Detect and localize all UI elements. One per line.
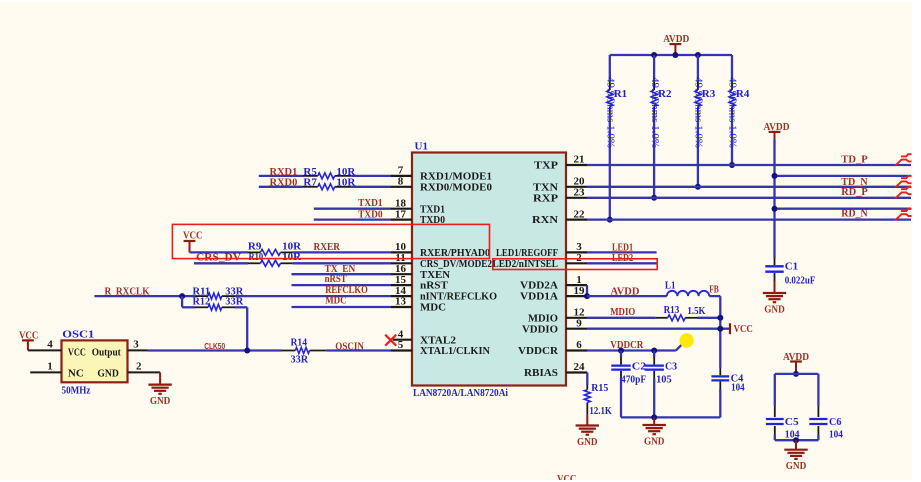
svg-text:nRST: nRST: [325, 273, 348, 285]
junction TD_N tap: [772, 173, 778, 179]
svg-text:CLK50: CLK50: [204, 342, 225, 351]
resistor R11 33R: [193, 286, 245, 300]
U1 pin 21 TXP: [534, 154, 587, 172]
U1 pin 13 MDC: [391, 296, 446, 314]
svg-text:23: 23: [574, 187, 586, 199]
ground (C1): [763, 281, 786, 315]
power VCC (RXER pull): [183, 229, 203, 252]
svg-text:MDIO: MDIO: [610, 306, 635, 318]
wire TXD0 row: [314, 218, 391, 220]
wire RBIAS down: [586, 373, 588, 386]
junction R1 bottom: [607, 217, 613, 223]
U1 pin 9 VDDIO: [522, 317, 587, 335]
OSC1 pin 1: [30, 361, 61, 373]
U1 pin 2 LED2/nINTSEL: [493, 252, 588, 270]
resistor R10 10R: [248, 251, 302, 266]
net label AVDD: [611, 285, 640, 297]
wire VDDCR row: [587, 349, 676, 351]
U1 pin 1 VDD2A: [520, 274, 587, 292]
svg-text:1: 1: [47, 361, 53, 373]
U1 pin 7 RXD1/MODE1: [391, 165, 492, 183]
wire MDC row: [292, 306, 392, 308]
OSC1 pin 4: [28, 339, 62, 351]
U1 pin 4 XTAL2: [393, 328, 457, 346]
power AVDD (C5 C6): [783, 351, 809, 374]
svg-text:R13: R13: [664, 304, 680, 316]
resistor R14 33R: [282, 337, 327, 366]
wire decoupling bottom: [621, 416, 720, 418]
svg-text:FB: FB: [709, 283, 719, 295]
svg-text:2: 2: [136, 361, 142, 373]
wire nRST row: [292, 284, 392, 286]
resistor R3 49.9Ohms 1.0%: [693, 77, 716, 148]
net label VDDCR: [610, 339, 644, 351]
svg-text:C2: C2: [632, 361, 647, 373]
net label FB: [709, 283, 719, 295]
svg-text:LAN8720A/LAN8720Ai: LAN8720A/LAN8720Ai: [413, 387, 508, 399]
wire R_RXCLK / REFCLKO row: [94, 295, 391, 297]
wire RXN line: [587, 218, 911, 220]
power VCC (OSC1): [19, 329, 39, 350]
net label OSCIN: [335, 340, 364, 352]
svg-text:U1: U1: [415, 141, 428, 153]
svg-text:5: 5: [398, 339, 404, 351]
svg-text:TXP: TXP: [534, 160, 558, 172]
svg-text:MDC: MDC: [420, 302, 446, 314]
ground (C5 C6): [784, 440, 807, 472]
power VCC (VDDIO): [730, 323, 753, 335]
svg-text:VDD1A: VDD1A: [520, 291, 558, 303]
junction R2 bottom: [651, 195, 657, 201]
resistor R7 10R: [303, 177, 357, 190]
resistor R2 49.9Ohms 1.0%: [649, 77, 672, 148]
ground (C2 C3 C4): [643, 417, 666, 447]
svg-text:CRS_DV: CRS_DV: [196, 251, 241, 263]
svg-text:GND: GND: [97, 367, 119, 379]
off-sheet connector RD_N: [895, 209, 911, 220]
U1 pin 15 nRST: [391, 274, 449, 292]
wire VDD2A to VDD1A tie: [586, 285, 588, 296]
svg-text:GND: GND: [786, 460, 807, 472]
U1 pin 12 MDIO: [528, 307, 587, 325]
wire AVDD vertical to C1: [773, 140, 775, 258]
off-sheet connector TD_P: [895, 154, 911, 165]
svg-text:RXD0/MODE0: RXD0/MODE0: [420, 181, 492, 193]
junction VDD1A: [584, 293, 590, 299]
net label R_RXCLK: [105, 286, 150, 298]
capacitor C2 470pF: [611, 351, 646, 418]
svg-text:R15: R15: [591, 382, 608, 394]
wire RXD1 row: [259, 175, 391, 177]
annotation rectangle 1: [172, 224, 489, 258]
wire TXD1 row: [314, 208, 391, 210]
net label TXD1: [358, 197, 382, 209]
svg-text:1.5K: 1.5K: [687, 305, 705, 317]
net label LED1: [612, 241, 633, 253]
capacitor C5 104: [766, 406, 800, 440]
U1 pin 20 TXN: [533, 176, 587, 194]
svg-text:33R: 33R: [225, 296, 244, 308]
wire R12 branch: [182, 296, 247, 350]
svg-text:TXD0: TXD0: [358, 208, 383, 220]
svg-text:49.9Ohms 1.0%: 49.9Ohms 1.0%: [693, 77, 705, 148]
svg-text:RXN: RXN: [532, 214, 558, 226]
svg-text:GND: GND: [764, 303, 785, 315]
svg-text:105: 105: [656, 373, 672, 385]
svg-text:50MHz: 50MHz: [62, 385, 91, 397]
svg-text:R12: R12: [193, 296, 211, 308]
svg-text:12.1K: 12.1K: [589, 405, 612, 417]
capacitor C3 105: [645, 351, 678, 418]
wire CRS_DV row: [194, 262, 391, 264]
svg-text:R_RXCLK: R_RXCLK: [105, 286, 150, 298]
highlight dot (yellow): [679, 333, 693, 347]
wire C5/C6 loop: [775, 374, 819, 440]
svg-text:21: 21: [574, 154, 585, 166]
resistor R5 10R: [303, 166, 357, 179]
svg-text:49.9Ohms 1.0%: 49.9Ohms 1.0%: [649, 77, 661, 148]
svg-text:LED2/nINTSEL: LED2/nINTSEL: [493, 258, 559, 270]
svg-text:104: 104: [829, 428, 843, 440]
svg-text:RD_N: RD_N: [841, 208, 867, 220]
off-sheet connector TD_N: [895, 176, 911, 187]
svg-text:VCC: VCC: [68, 347, 86, 359]
net label TD_N: [841, 176, 867, 188]
junction AVDD stub: [672, 52, 678, 58]
junction GND tap: [651, 414, 657, 420]
inductor L1 FB: [665, 280, 709, 297]
svg-text:3: 3: [133, 339, 139, 351]
wire LED1 row: [587, 251, 657, 253]
wire TXP/TD_P line: [587, 164, 911, 166]
svg-text:C5: C5: [785, 416, 799, 428]
junction C2 top: [618, 348, 624, 354]
U1 pin 11 CRS_DV/MODE2: [391, 252, 492, 270]
svg-text:TD_P: TD_P: [841, 154, 868, 166]
wire RXP line: [587, 197, 911, 199]
svg-text:MDC: MDC: [325, 295, 346, 307]
junction R3 top: [695, 52, 701, 58]
wire RXD0 row: [259, 186, 391, 188]
svg-text:AVDD: AVDD: [764, 121, 790, 133]
svg-text:10R: 10R: [282, 251, 302, 263]
svg-text:C3: C3: [665, 361, 678, 373]
wire R4 vertical: [731, 55, 733, 165]
junction MDIO/rail: [717, 315, 723, 321]
U1 pin 3 LED1/REGOFF: [496, 241, 587, 259]
net label TXD0: [358, 208, 383, 220]
capacitor C6 104: [809, 406, 843, 440]
net label TD_P: [841, 154, 868, 166]
svg-text:VDDIO: VDDIO: [522, 323, 558, 335]
svg-text:49.9Ohms 1.0%: 49.9Ohms 1.0%: [605, 77, 617, 148]
U1 pin 16 TXEN: [391, 263, 450, 281]
net label LED2: [612, 252, 634, 264]
resistor R1 49.9Ohms 1.0%: [605, 77, 628, 148]
wire AVDD row to L1: [587, 295, 667, 297]
svg-text:33R: 33R: [291, 354, 310, 366]
U1 pin 22 RXN: [532, 208, 587, 226]
svg-text:C6: C6: [829, 416, 842, 428]
svg-text:0.022uF: 0.022uF: [785, 274, 816, 286]
U1 pin 6 VDDCR: [518, 339, 587, 357]
svg-text:17: 17: [395, 208, 407, 220]
net label TX_EN: [325, 263, 356, 275]
resistor R15 12.1K: [584, 382, 612, 417]
svg-text:470pF: 470pF: [621, 373, 646, 385]
svg-text:GND: GND: [644, 435, 665, 447]
svg-text:VDDCR: VDDCR: [518, 345, 559, 357]
wire RD_N upper line: [775, 208, 912, 210]
wire TXN line: [587, 186, 911, 188]
op-amp U1 body (LAN8720A PHY): [412, 141, 566, 399]
wire VDDCR stub diagonal: [676, 341, 685, 350]
wire CLK50 row: [148, 349, 392, 351]
svg-text:6: 6: [576, 339, 582, 351]
svg-text:8: 8: [398, 176, 404, 188]
U1 pin 23 RXP: [533, 187, 587, 205]
wire R2 vertical: [653, 55, 655, 198]
svg-text:L1: L1: [665, 280, 676, 292]
svg-text:R7: R7: [303, 177, 317, 189]
svg-text:GND: GND: [150, 395, 171, 407]
power AVDD (C1 filter): [764, 121, 790, 140]
svg-text:RD_P: RD_P: [841, 186, 868, 198]
svg-text:AVDD: AVDD: [663, 33, 689, 45]
junction CLK50/R12: [244, 348, 250, 354]
svg-text:VCC: VCC: [734, 323, 753, 335]
svg-text:Output: Output: [92, 347, 121, 359]
net label CRS_DV: [196, 251, 241, 263]
wire AVDD bus top: [610, 54, 732, 56]
power AVDD (resistor bank): [663, 33, 689, 55]
U1 pin 10 RXER/PHYAD0: [391, 241, 490, 259]
svg-text:OSCIN: OSCIN: [335, 340, 364, 352]
svg-text:19: 19: [574, 285, 586, 297]
net label VCC (bottom): [557, 473, 576, 482]
ground (R15): [576, 414, 599, 448]
junction R_RXCLK split: [179, 293, 185, 299]
resistor R9 10R: [248, 241, 302, 256]
no-connect X on pin 4: [385, 335, 396, 346]
OSC1 pin 3: [128, 339, 148, 351]
svg-text:R10: R10: [249, 251, 264, 263]
svg-text:104: 104: [731, 381, 745, 393]
svg-text:R14: R14: [291, 337, 308, 349]
net label RXD1: [270, 166, 298, 178]
svg-text:VCC: VCC: [183, 229, 203, 241]
resistor R12 33R: [193, 296, 245, 311]
capacitor C1 0.022uF: [765, 258, 815, 286]
svg-text:AVDD: AVDD: [783, 351, 809, 363]
wire LED2 row: [587, 262, 657, 264]
wire MDIO row: [587, 317, 720, 319]
svg-text:TXD1: TXD1: [358, 197, 382, 209]
svg-text:RXER: RXER: [314, 241, 341, 253]
net label nRST: [325, 273, 348, 285]
U1 pin 17 TXD0: [391, 208, 445, 226]
svg-text:10R: 10R: [336, 177, 356, 189]
net label MDIO: [610, 306, 635, 318]
resistor R4 49.9Ohms 1.0%: [727, 77, 750, 148]
ground (OSC1 pin2): [148, 372, 171, 407]
net label CLK50: [204, 342, 225, 351]
wire RXER row: [190, 251, 392, 253]
U1 pin 14 nINT/REFCLKO: [391, 285, 497, 303]
svg-text:RXD0: RXD0: [270, 177, 298, 189]
junction R2 top: [651, 52, 657, 58]
svg-text:13: 13: [395, 296, 407, 308]
wire L1 to VCC rail corner: [709, 296, 720, 368]
svg-text:XTAL1/CLKIN: XTAL1/CLKIN: [420, 345, 490, 357]
annotation rectangle 2: [493, 259, 657, 270]
U1 pin 19 VDD1A: [520, 285, 587, 303]
svg-text:22: 22: [574, 208, 586, 220]
wire R3 vertical: [697, 55, 699, 187]
oscillator OSC1 body: [62, 329, 128, 397]
junction R4 bottom: [729, 162, 735, 168]
svg-text:49.9Ohms 1.0%: 49.9Ohms 1.0%: [727, 77, 739, 148]
svg-text:AVDD: AVDD: [611, 285, 640, 297]
wire R1 vertical: [609, 55, 611, 220]
U1 pin 18 TXD1: [391, 197, 445, 215]
svg-text:VCC: VCC: [19, 329, 39, 341]
wire TX_EN row: [292, 273, 392, 275]
U1 pin 8 RXD0/MODE0: [391, 176, 492, 194]
net label REFCLKO: [325, 284, 368, 296]
svg-text:9: 9: [576, 317, 582, 329]
svg-text:OSC1: OSC1: [62, 329, 94, 341]
off-sheet connector RD_P: [895, 187, 911, 198]
junction RD_N tap: [772, 206, 778, 212]
svg-text:C1: C1: [785, 261, 798, 273]
U1 pin 24 RBIAS: [524, 361, 587, 379]
net label RD_P: [841, 186, 868, 198]
svg-text:4: 4: [47, 339, 53, 351]
net label RXER: [314, 241, 341, 253]
junction R3 bottom: [695, 184, 701, 190]
resistor R13 1.5K: [655, 304, 705, 321]
wire TD_N upper line: [775, 175, 912, 177]
net label RD_N: [841, 208, 867, 220]
U1 pin 5 XTAL1/CLKIN: [391, 339, 490, 357]
junction AVDD C5C6 top: [793, 371, 799, 377]
svg-text:RXP: RXP: [533, 192, 558, 204]
net label MDC: [325, 295, 346, 307]
net label RXD0: [270, 177, 298, 189]
svg-text:RBIAS: RBIAS: [524, 367, 558, 379]
svg-text:GND: GND: [577, 436, 598, 448]
junction C3 top: [651, 348, 657, 354]
svg-text:24: 24: [574, 361, 586, 373]
junction C5C6 bottom: [793, 437, 799, 443]
svg-text:NC: NC: [68, 367, 84, 379]
OSC1 pin 2: [128, 361, 161, 373]
capacitor C4 104: [711, 368, 745, 417]
junction VDDIO/rail: [717, 326, 723, 332]
wire VDDIO row: [587, 328, 730, 330]
svg-text:VDDCR: VDDCR: [610, 339, 644, 351]
